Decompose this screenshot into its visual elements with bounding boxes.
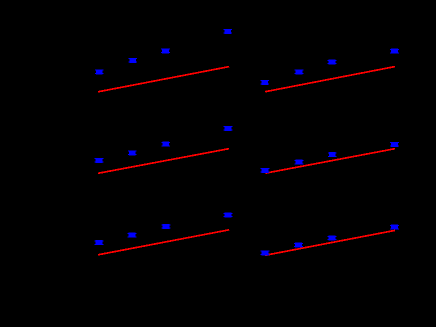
L6 fit line subplot r3c2 xyxy=(265,230,395,255)
data point r1c1 #2 (blue square marker with error bar caps) xyxy=(128,58,137,63)
L3 fit line subplot r2c1 xyxy=(98,149,229,174)
data point r1c1 #1 (blue square marker with error bar caps) xyxy=(95,69,104,74)
data point r3c2 #3 (blue square marker with error bar caps) xyxy=(328,236,337,241)
data point r3c1 #3 (blue square marker with error bar caps) xyxy=(162,224,171,229)
data point r2c2 #3 (blue square marker with error bar caps) xyxy=(328,152,337,157)
data point r2c2 #2 (blue square marker with error bar caps) xyxy=(295,160,304,165)
data point r1c2 #2 (blue square marker with error bar caps) xyxy=(295,69,304,74)
L2 fit line subplot r1c2 xyxy=(265,67,395,92)
data point r1c1 #4 (blue square marker with error bar caps) xyxy=(223,29,232,34)
data point r3c2 #1 (blue square marker with error bar caps) xyxy=(261,250,270,255)
data point r3c1 #2 (blue square marker with error bar caps) xyxy=(128,233,137,238)
data point r3c2 #2 (blue square marker with error bar caps) xyxy=(294,243,303,248)
data point r3c2 #4 (blue square marker with error bar caps) xyxy=(390,225,399,230)
data point r2c1 #1 (blue square marker with error bar caps) xyxy=(95,158,104,163)
data point r1c2 #3 (blue square marker with error bar caps) xyxy=(328,60,337,65)
L1 fit line subplot r1c1 xyxy=(98,67,229,92)
data point r2c1 #4 (blue square marker with error bar caps) xyxy=(224,126,233,131)
data point r2c2 #1 (blue square marker with error bar caps) xyxy=(261,168,270,173)
data point r1c1 #3 (blue square marker with error bar caps) xyxy=(161,48,170,53)
data point r2c2 #4 (blue square marker with error bar caps) xyxy=(390,142,399,147)
data point r1c2 #1 (blue square marker with error bar caps) xyxy=(260,80,269,85)
data point r3c1 #1 (blue square marker with error bar caps) xyxy=(95,240,104,245)
data point r3c1 #4 (blue square marker with error bar caps) xyxy=(224,213,233,218)
data point r1c2 #4 (blue square marker with error bar caps) xyxy=(390,49,399,54)
data point r2c1 #3 (blue square marker with error bar caps) xyxy=(161,142,170,147)
L5 fit line subplot r3c1 xyxy=(98,230,229,255)
data point r2c1 #2 (blue square marker with error bar caps) xyxy=(128,150,137,155)
L4 fit line subplot r2c2 xyxy=(265,149,395,174)
